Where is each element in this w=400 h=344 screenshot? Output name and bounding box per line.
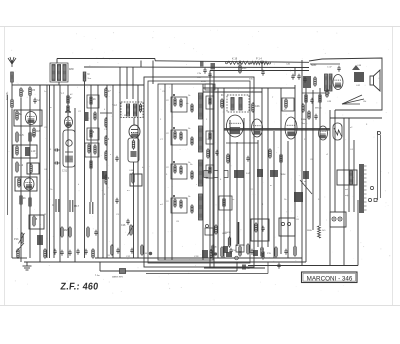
wire rail x218 [217, 88, 219, 258]
right stage resistor RR1 [285, 98, 287, 109]
wire rail x127 [126, 67, 128, 99]
svg-text:R/W: R/W [69, 68, 74, 71]
wire rail x302 [301, 60, 303, 265]
label t284_110 [284, 109, 287, 111]
choke winding [349, 171, 352, 184]
wire bracket [100, 270, 237, 272]
svg-text:hz: hz [232, 199, 234, 201]
resistor R56 [92, 248, 94, 259]
svg-text:BL: BL [19, 112, 23, 116]
capacitor C21 [297, 74, 300, 80]
bracket capacitor BK3 [277, 263, 280, 269]
wire rail x250 [249, 142, 251, 250]
IF stage resistor Rc3 [191, 170, 193, 180]
wire rail x335 [334, 110, 336, 212]
label AERIAL [6, 91, 9, 100]
label t318_200 [318, 199, 320, 201]
IF stage resistor Rb4 [180, 199, 182, 209]
magic eye V8 [333, 123, 342, 140]
bracket part BK2 [242, 265, 246, 270]
top junction block B [200, 61, 204, 67]
resistor R16b [105, 117, 107, 128]
resistor R16a [105, 87, 111, 98]
wire top bus 4 [210, 70, 309, 72]
shield box inner [148, 81, 250, 263]
resistor R26b [221, 98, 223, 109]
T3 winding b [239, 98, 242, 111]
label t70_160 [70, 159, 73, 161]
resistor J16 [33, 127, 41, 138]
power unit outline [309, 58, 382, 110]
wire rail x84 [84, 85, 86, 258]
resistor R35 [261, 246, 263, 258]
component dark R [303, 171, 309, 179]
wire aerial bottom link [12, 257, 27, 259]
label t190_165 [190, 164, 193, 166]
label P14 [256, 58, 262, 61]
wire rail x133 [132, 67, 134, 99]
output transformer T4 pri [325, 74, 328, 91]
svg-text:MOD: MOD [201, 81, 207, 83]
resistor R25 [210, 249, 212, 259]
svg-text:P: P [70, 96, 72, 100]
svg-text:50hz: 50hz [311, 64, 317, 67]
wire rail x306b [305, 88, 307, 262]
resistor R16d [105, 174, 110, 185]
chain box MB4 [85, 143, 99, 157]
wire frame corner y113 [100, 112, 112, 114]
capacitor C6a [116, 248, 119, 254]
IF label a2 [166, 133, 170, 135]
resistor R39 [305, 93, 307, 104]
label CHOKE [363, 101, 367, 103]
valve V4 [285, 117, 297, 139]
capacitor M17 [70, 200, 80, 212]
wire drop x240 [239, 61, 241, 67]
label t104_195 [104, 194, 106, 196]
IF can T5 [63, 130, 75, 167]
junction blob [214, 252, 217, 255]
wire rail x60 [59, 85, 61, 262]
svg-text:M: M [88, 74, 90, 76]
label C4b3 [213, 247, 218, 249]
valve V2 [227, 115, 244, 137]
label t142_168 [142, 167, 144, 169]
capacitor C54 [76, 249, 79, 255]
label LPOWER [61, 93, 65, 95]
label t186_104 [186, 103, 189, 105]
wire bracket 2 drop [267, 262, 269, 274]
svg-text:K 19: K 19 [232, 58, 238, 61]
T1 winding a [52, 65, 55, 81]
wire rail x354 [353, 140, 355, 212]
capacitor C20 [261, 70, 264, 76]
resistor RB1 [228, 236, 230, 248]
valve V7 [319, 126, 328, 140]
IF stage junction J4 [173, 195, 175, 197]
wire rail x295 [294, 85, 296, 246]
IF coil LC1 [199, 93, 203, 119]
svg-text:M2: M2 [64, 228, 68, 232]
label V1f [127, 190, 130, 192]
label t166_175 [166, 174, 168, 176]
wire rail x274 [273, 131, 275, 258]
label t284_200 [284, 199, 287, 201]
shield box outer [144, 77, 254, 267]
box B6 [130, 174, 142, 186]
IF stage resistor Rc1 [191, 103, 193, 113]
screen box B3 [27, 163, 39, 174]
label C12 [126, 256, 131, 258]
svg-text:C 47: C 47 [327, 67, 332, 69]
wire bottom rail y268 [204, 267, 265, 269]
screen box B2 [13, 145, 37, 158]
wire top bus 3 [84, 66, 309, 69]
capacitor C52 [90, 202, 93, 214]
label C17 [197, 77, 202, 79]
T2 resistor [139, 103, 141, 113]
wire T1 bottom lead [58, 82, 60, 85]
wire rail x262 [261, 88, 263, 247]
IF transformer T3 box [227, 95, 249, 112]
svg-text:C4b: C4b [255, 104, 260, 108]
capacitor block C42 [354, 72, 364, 82]
T2 winding b [133, 104, 136, 116]
capacitor C57 [94, 230, 97, 236]
label t350_150 [350, 149, 354, 151]
wire rail x210 [209, 71, 211, 269]
resistor R29 [280, 153, 282, 164]
resistor R48b [132, 172, 134, 184]
IF label b3 [188, 162, 191, 164]
resistor C15 [16, 131, 24, 143]
label C49 [327, 101, 332, 103]
svg-text:m: m [270, 185, 272, 187]
IF stage box S4 [171, 198, 187, 213]
label P15 [267, 253, 272, 255]
junction box JB1 [205, 84, 215, 90]
svg-text:M: M [44, 214, 46, 216]
label P1b [14, 237, 19, 241]
svg-text:o.c: o.c [127, 190, 130, 192]
resistor R15 [94, 111, 96, 121]
chain resistor CR2 [209, 131, 211, 141]
dark blob BD1 [223, 246, 228, 253]
resistor R41 [318, 226, 321, 238]
label t296_220 [296, 219, 300, 221]
IF label a4 [166, 201, 170, 203]
label C16 [121, 224, 126, 227]
resistor R36 [275, 246, 277, 258]
IF coil LC2 [199, 126, 203, 152]
svg-text:Z.F.: 460: Z.F.: 460 [60, 282, 99, 293]
label t310_160 [310, 159, 314, 161]
capacitor C29 [284, 249, 287, 255]
wire rail x54 [53, 85, 55, 258]
wire rail x214 [213, 71, 215, 269]
wire rail x91 [90, 85, 92, 202]
wire trimmer lead [84, 81, 86, 85]
T1 winding b [57, 65, 60, 81]
resistor R15c [88, 143, 90, 154]
switch row S1 [204, 171, 228, 178]
wire left edge rail [7, 95, 9, 215]
label C4b2 [286, 64, 291, 66]
potentiometer P1b [21, 232, 23, 244]
switch contacts S2 [281, 222, 290, 225]
IF coil LC3 [199, 160, 203, 186]
T2 winding a [126, 104, 129, 116]
capacitor C47 [337, 66, 340, 72]
wire power inner wire 1 [310, 63, 340, 65]
wire mid top rail y88 [203, 87, 295, 89]
switch block 2 [257, 169, 263, 177]
bottom box P50 [236, 245, 244, 252]
wire rail x330 [329, 110, 331, 266]
resistor R15d [94, 144, 96, 155]
wire rail x313 [312, 90, 314, 230]
capacitor C31 [310, 98, 313, 104]
label K19 [232, 58, 238, 61]
valve V1 envelope [129, 125, 140, 138]
chain box MB3 [87, 128, 99, 140]
label t206_140 [206, 139, 210, 141]
capacitor C32 [314, 114, 317, 120]
svg-text:adj: adj [345, 195, 348, 197]
resistor R23 [44, 248, 46, 259]
wire top bus tick [154, 59, 156, 61]
resistor R24 [141, 244, 143, 256]
wire bottom rail 2 [95, 257, 302, 259]
capacitor C55 [84, 249, 87, 255]
svg-text:R21: R21 [242, 66, 247, 70]
label t232_200 [232, 199, 234, 201]
label L10 [31, 149, 36, 153]
label t220_180 [220, 179, 222, 181]
wire rail x288 [287, 141, 289, 258]
wire rail x113 [112, 85, 114, 258]
label W2 [124, 115, 128, 117]
label t44_170 [44, 169, 48, 171]
output transformer T4 sec [329, 74, 332, 91]
label t160_140 [160, 139, 164, 141]
wire rail x103 [102, 171, 104, 258]
resistor R4 [16, 110, 23, 121]
label T12 [112, 104, 117, 107]
capacitor C16 [126, 219, 129, 225]
capacitor C51a [52, 199, 59, 212]
label t50_108 [50, 107, 52, 109]
resistor RB3 [262, 250, 264, 260]
wire left rail 5 [46, 85, 48, 258]
IF label b4 [188, 196, 191, 198]
label t196_185 [196, 183, 197, 186]
title box MARCONI-346 [302, 272, 358, 283]
wire aerial lead [11, 82, 13, 100]
label t162_92 [162, 91, 166, 93]
electrolytic C30 [294, 192, 303, 202]
resistor R30 [255, 222, 257, 233]
label t262_205 [262, 204, 264, 206]
valve V2a [65, 117, 73, 128]
capacitor C59 [115, 198, 118, 204]
resistor C4b [252, 102, 260, 113]
wire frame top x100-140 [98, 84, 144, 86]
wire V1 cathode lead [133, 162, 135, 258]
bottom box BB1 [205, 228, 213, 235]
label L19 [224, 232, 231, 234]
antenna A1 [8, 57, 16, 67]
wire drop x153 [152, 61, 154, 85]
wire rail x349 [348, 118, 350, 212]
IF shield box [158, 84, 213, 260]
wiper arrow [16, 243, 24, 252]
T3 winding a [231, 98, 234, 111]
potentiometer VC1 [130, 224, 132, 236]
label mains rev [112, 276, 124, 279]
wire left rail 4 [39, 85, 41, 262]
switch block SW-GRAM [234, 170, 244, 178]
HT bus band [224, 128, 330, 131]
resistor R43 [302, 103, 304, 113]
IF label a1 [166, 100, 170, 102]
screen box B4 [15, 177, 37, 191]
capacitor C58 [115, 156, 118, 162]
tuning scale bar [359, 164, 367, 213]
component BL1 [102, 171, 107, 179]
IF stage resistor Rb1 [180, 98, 182, 108]
wire rail x224 [223, 88, 225, 258]
wire rail x268 [267, 88, 269, 247]
label t272_98 [272, 97, 274, 99]
resistor R3 [29, 86, 36, 97]
label plus [290, 69, 292, 73]
label TL [119, 103, 122, 105]
IF label b1 [188, 95, 191, 97]
resistor R38 [314, 76, 316, 87]
label t366_125 [366, 124, 368, 126]
wire left rail 3 [29, 95, 31, 258]
resistor R16cc [105, 150, 107, 161]
resistor R33 [221, 246, 223, 258]
label t350_128 [350, 127, 353, 129]
potentiometer VR1 [37, 235, 43, 245]
capacitor C22 [303, 77, 306, 83]
diag wire [300, 180, 312, 194]
label MO41 [315, 108, 322, 110]
IF stage resistor Rb2 [180, 131, 182, 141]
capacitor C27 [229, 248, 232, 254]
resistor RB2 [247, 243, 249, 255]
resistor R15f [87, 226, 89, 238]
label IF2 [221, 94, 225, 97]
resistor R5 [29, 131, 35, 143]
wire right section edge [357, 200, 359, 266]
label t50_150 [50, 149, 52, 151]
resistor R15e [90, 159, 92, 170]
resistor R42 [326, 88, 328, 98]
label t304_140 [304, 139, 306, 141]
IF stage resistor Ra2 [174, 130, 176, 140]
aerial transformer T1 frame [50, 63, 68, 82]
IF stage junction J1 [173, 94, 175, 96]
capacitor C26 [261, 226, 264, 232]
label C47 [327, 67, 332, 69]
capacitor C23 [291, 74, 294, 80]
label t78_112 [78, 111, 82, 113]
resistor R22 [69, 226, 71, 238]
svg-text:P 1 4: P 1 4 [256, 58, 262, 61]
lower stage box LB1 [219, 196, 232, 210]
resistor R2 [20, 87, 25, 98]
svg-text:MAINS REV: MAINS REV [112, 276, 124, 279]
junction ring bc [206, 225, 209, 228]
chain bar MB2 [85, 112, 89, 121]
resistor R10 [29, 196, 31, 208]
capacitor C7b [203, 68, 206, 74]
wire rail x344 [343, 118, 345, 266]
resistor R14 [90, 95, 96, 106]
svg-text:C15: C15 [19, 133, 24, 137]
IF stage junction J2 [173, 127, 175, 129]
wire rail x68 [67, 85, 69, 258]
chain box MB1 [87, 95, 99, 108]
resistor R40 [319, 93, 321, 104]
label V18 [194, 256, 199, 258]
wire left rail 2 [20, 98, 22, 262]
wire wire y143 [226, 142, 258, 144]
ground G1 [23, 262, 32, 270]
loudspeaker LS1 [370, 70, 380, 91]
chain box CB3 [206, 165, 214, 178]
resistor K19 [228, 61, 250, 64]
label C49b [260, 249, 265, 251]
capacitor C24 [215, 150, 218, 156]
wire rail x120 [119, 67, 121, 258]
label t240_110 [240, 109, 242, 111]
wire mid-left frame top [60, 84, 98, 86]
label t304_182 [304, 181, 306, 183]
IF stage box S1 [171, 97, 187, 112]
resistor R12b [67, 104, 69, 114]
wire coil block top lead [56, 59, 58, 64]
IF stage box S3 [171, 164, 187, 179]
wire rail x230 [229, 120, 231, 245]
wire bracket drop R [236, 262, 238, 271]
lower stage resistor LR1 [223, 197, 225, 208]
svg-text:S-w: S-w [88, 78, 92, 80]
label M [88, 74, 90, 76]
dark blob BD2 [226, 252, 232, 257]
label t50_190 [50, 189, 53, 191]
wire aerial lead 2 [11, 109, 13, 258]
label C6 [107, 255, 111, 257]
V1 can resistor [132, 139, 134, 150]
capacitor C61 [68, 250, 71, 256]
wire rail x203 [202, 84, 204, 260]
label adj [345, 195, 348, 197]
capacitor C1 [33, 98, 39, 104]
resistor R21 [239, 64, 247, 74]
choke box B9 [337, 170, 357, 185]
coil L10 [25, 147, 30, 156]
dial cord assembly [368, 131, 380, 202]
resistor R11 [33, 215, 38, 227]
wire bracket drop L [99, 262, 101, 271]
capacitor C60 [60, 250, 63, 256]
label C7b [197, 73, 202, 75]
screen box B1 [14, 110, 42, 126]
